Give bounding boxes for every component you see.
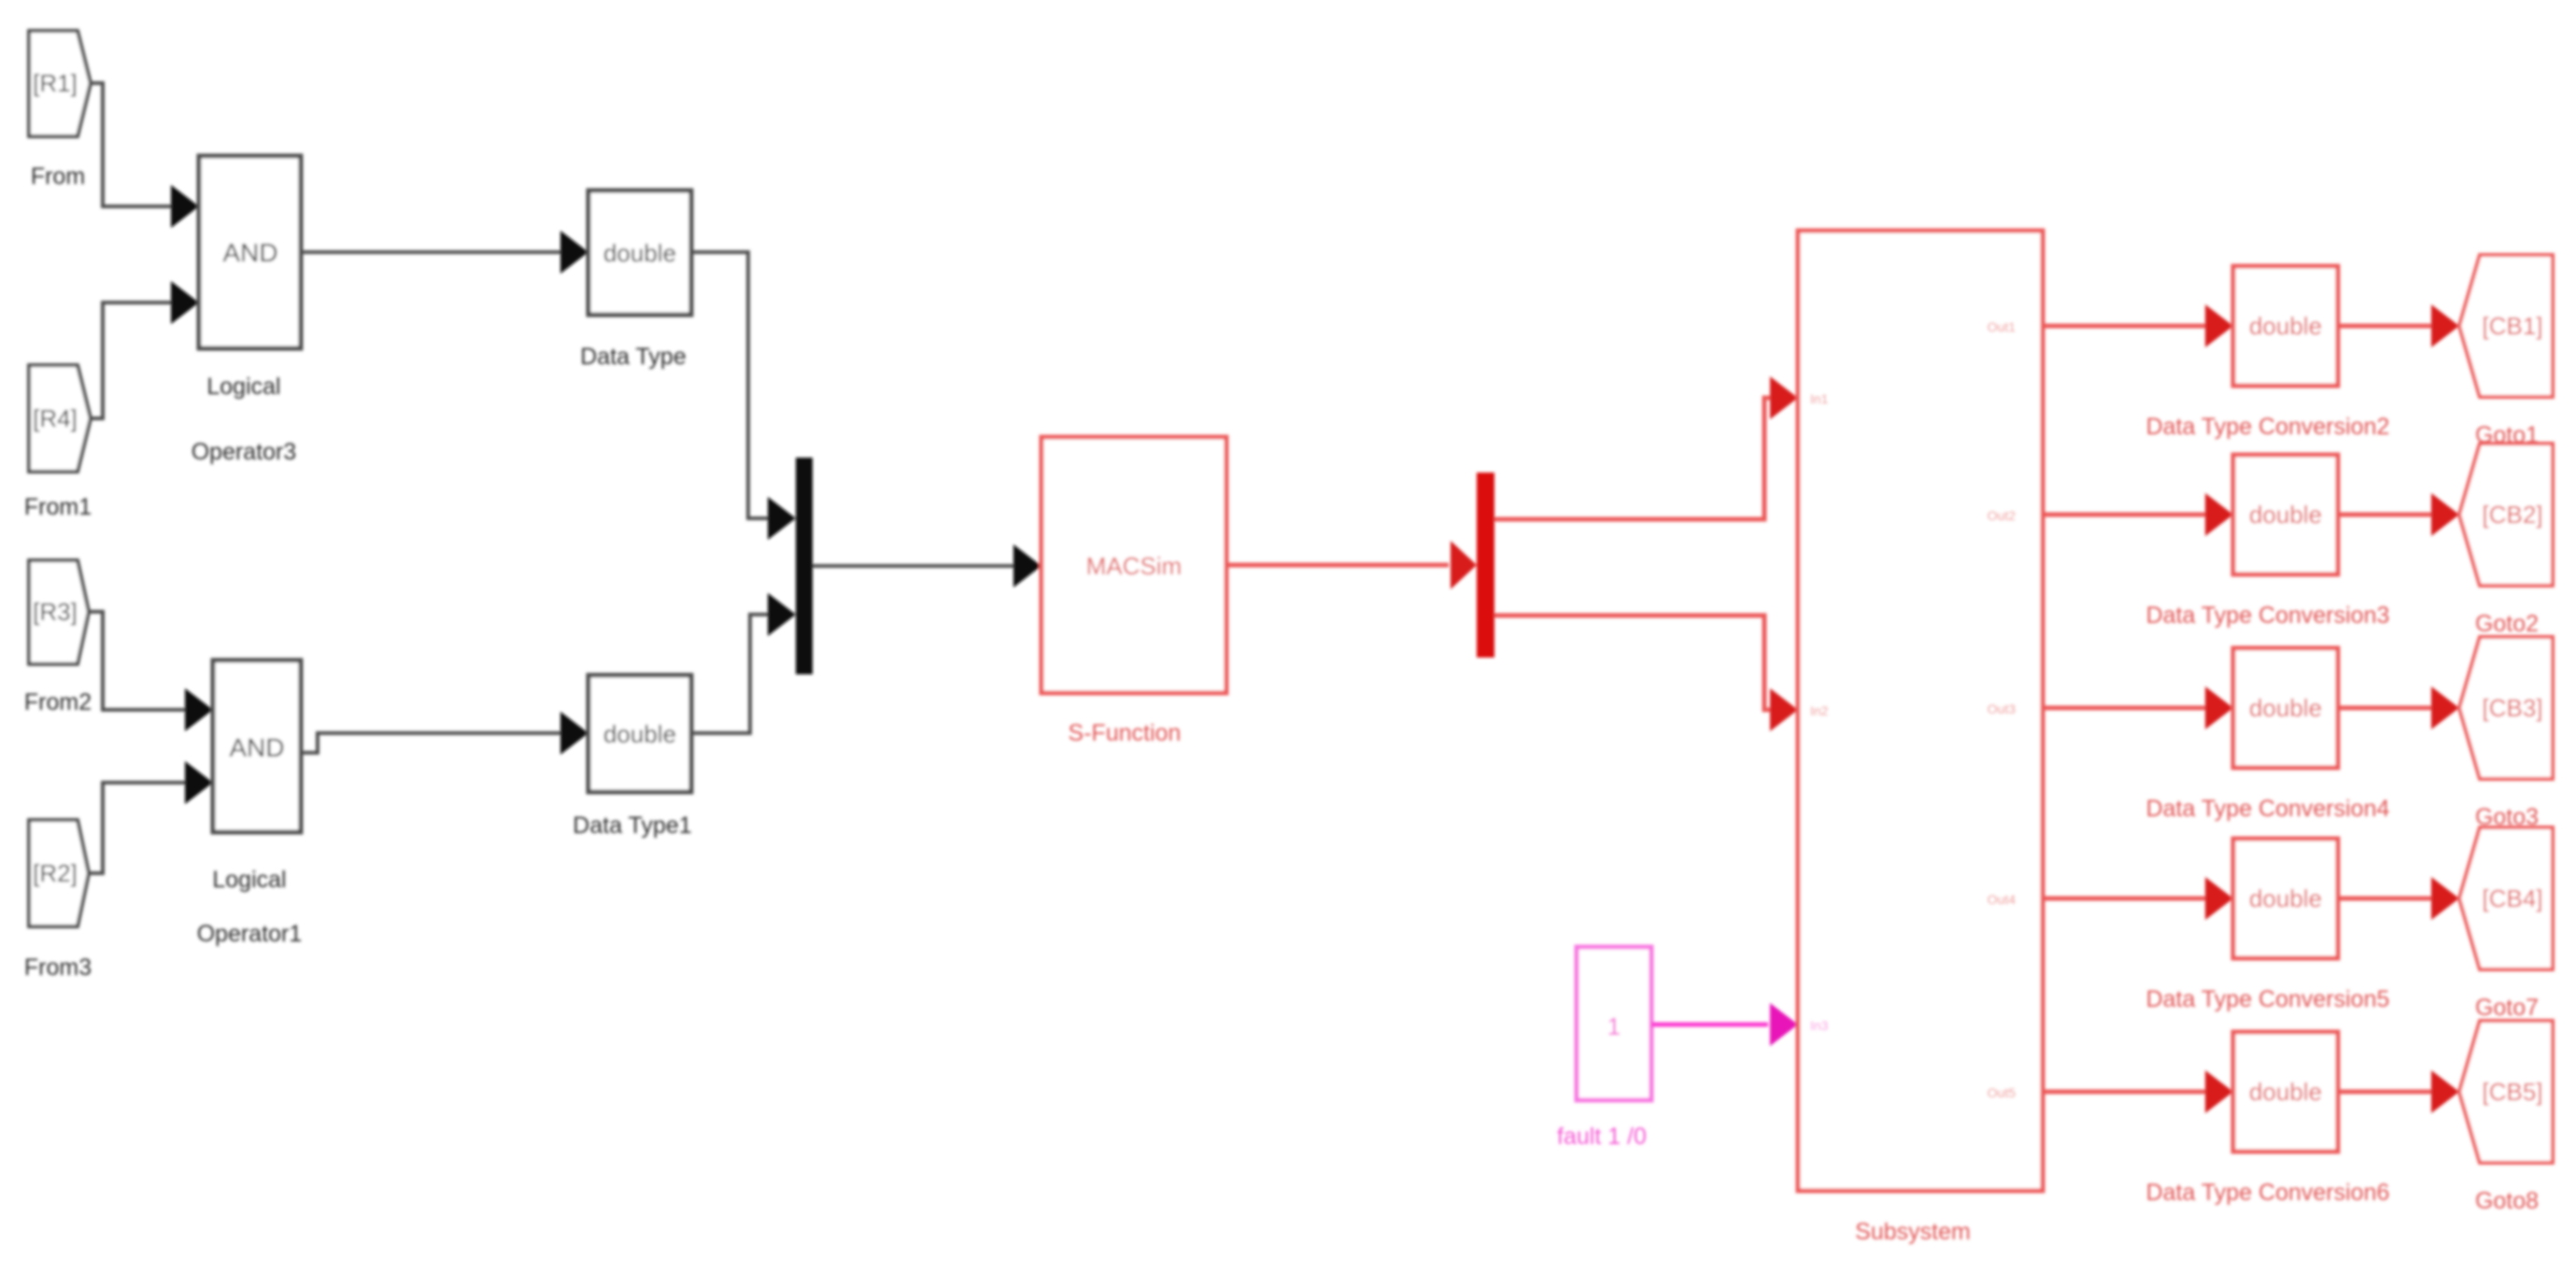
label Goto2 [2475, 611, 2539, 637]
svg-text:Data Type Conversion6: Data Type Conversion6 [2146, 1180, 2390, 1206]
wire constant to Subsystem In3 [1651, 1003, 1798, 1046]
svg-text:Data Type1: Data Type1 [573, 813, 691, 839]
label Goto7 [2475, 995, 2539, 1021]
goto tag Goto3 "[CB3]" [2459, 637, 2553, 779]
svg-text:[CB2]: [CB2] [2482, 501, 2542, 529]
wire MACSim output to Demux [1226, 541, 1477, 589]
svg-text:double: double [603, 239, 676, 267]
svg-text:double: double [2249, 1078, 2322, 1106]
wire Data Type to Mux input 1 [691, 252, 796, 540]
label Goto1 [2475, 422, 2539, 448]
svg-text:Data Type Conversion2: Data Type Conversion2 [2146, 414, 2390, 440]
label Goto3 [2475, 804, 2539, 830]
svg-text:Data Type Conversion4: Data Type Conversion4 [2146, 796, 2390, 822]
svg-text:[CB5]: [CB5] [2482, 1078, 2542, 1106]
subsystem block [1798, 231, 2043, 1245]
svg-text:Logical: Logical [206, 374, 280, 400]
svg-text:AND: AND [222, 238, 277, 267]
data type conversion block "Data Type1" (double) [573, 675, 691, 839]
svg-text:Data Type Conversion5: Data Type Conversion5 [2146, 986, 2390, 1012]
svg-text:MACSim: MACSim [1086, 552, 1182, 580]
svg-text:AND: AND [229, 733, 284, 762]
data type conversion block "Data Type Conversion4" (double) [2146, 648, 2390, 822]
svg-text:Out1: Out1 [1988, 319, 2017, 334]
goto tag Goto1 "[CB1]" [2459, 255, 2553, 397]
svg-text:fault 1 /0: fault 1 /0 [1557, 1124, 1647, 1150]
svg-text:double: double [2249, 312, 2322, 340]
wire From[R1] to Logical Operator3 input 1 [91, 83, 199, 228]
svg-text:In3: In3 [1810, 1018, 1829, 1033]
wire Subsystem Out5 to Data Type Conversion6 [2043, 1070, 2233, 1113]
wire From3[R2] to Logical Operator1 input 2 [89, 761, 213, 873]
svg-text:From3: From3 [24, 954, 92, 981]
svg-text:Operator1: Operator1 [197, 921, 303, 947]
svg-text:Goto7: Goto7 [2475, 995, 2539, 1021]
goto tag Goto8 "[CB5]" [2459, 1021, 2553, 1163]
svg-text:Out2: Out2 [1988, 508, 2017, 523]
wire From1[R4] to Logical Operator3 input 2 [91, 281, 199, 418]
wire Data Type Conversion6 to Goto tag [CB5] [2338, 1070, 2459, 1113]
data type conversion block "Data Type Conversion3" (double) [2146, 455, 2390, 629]
wire Logical Operator3 output to Data Type [301, 231, 588, 274]
wire Data Type Conversion2 to Goto tag [CB1] [2338, 304, 2459, 347]
svg-text:1: 1 [1607, 1012, 1621, 1040]
data type conversion block "Data Type Conversion2" (double) [2146, 266, 2390, 440]
data type conversion block "Data Type" (double) [580, 191, 691, 370]
goto tag Goto2 "[CB2]" [2459, 444, 2553, 586]
wire Mux output to S-Function MACSim [813, 544, 1041, 587]
svg-text:double: double [603, 720, 676, 748]
svg-text:double: double [2249, 501, 2322, 529]
wire Subsystem Out2 to Data Type Conversion3 [2043, 493, 2233, 536]
svg-text:Operator3: Operator3 [191, 439, 297, 465]
wire Data Type Conversion5 to Goto tag [CB4] [2338, 877, 2459, 920]
data type conversion block "Data Type Conversion5" (double) [2146, 839, 2390, 1012]
svg-text:Subsystem: Subsystem [1855, 1219, 1971, 1245]
wire Data Type1 to Mux input 2 [691, 593, 796, 733]
svg-text:From2: From2 [24, 689, 92, 715]
svg-text:Data Type: Data Type [580, 344, 686, 370]
svg-text:[CB3]: [CB3] [2482, 694, 2542, 722]
svg-text:In2: In2 [1810, 703, 1829, 718]
svg-text:Out4: Out4 [1988, 892, 2017, 907]
svg-text:From1: From1 [24, 494, 92, 520]
svg-text:Data Type Conversion3: Data Type Conversion3 [2146, 602, 2390, 629]
mux (black bar) [796, 458, 813, 674]
From tag R3 "[R3]" / label From2 [24, 560, 92, 715]
svg-text:Out3: Out3 [1988, 701, 2017, 716]
wire Demux output 1 to Subsystem In1 [1494, 376, 1798, 519]
svg-text:[R4]: [R4] [33, 404, 78, 432]
svg-text:From: From [31, 163, 85, 190]
svg-text:[R2]: [R2] [33, 859, 78, 887]
demux (red bar) [1477, 473, 1494, 657]
From tag R1 "[R1]" / label From [29, 31, 91, 190]
data type conversion block "Data Type Conversion6" (double) [2146, 1032, 2390, 1206]
wire Subsystem Out3 to Data Type Conversion4 [2043, 686, 2233, 729]
svg-text:Out5: Out5 [1988, 1085, 2017, 1100]
svg-text:double: double [2249, 694, 2322, 722]
svg-text:Logical: Logical [212, 867, 286, 893]
wire From2[R3] to Logical Operator1 input 1 [89, 612, 213, 731]
label Goto8 [2475, 1188, 2539, 1214]
svg-text:In1: In1 [1810, 391, 1829, 406]
wire Demux output 2 to Subsystem In2 [1494, 615, 1798, 731]
From tag R2 "[R2]" / label From3 [24, 820, 92, 981]
svg-text:Goto2: Goto2 [2475, 611, 2539, 637]
svg-text:[CB4]: [CB4] [2482, 884, 2542, 912]
svg-text:[R1]: [R1] [33, 69, 78, 97]
wire Subsystem Out4 to Data Type Conversion5 [2043, 877, 2233, 920]
logical operator AND block "Logical Operator1" [197, 660, 303, 947]
S-Function block "MACSim" [1041, 437, 1226, 746]
svg-text:Goto8: Goto8 [2475, 1188, 2539, 1214]
wire Data Type Conversion4 to Goto tag [CB3] [2338, 686, 2459, 729]
From tag R4 "[R4]" / label From1 [24, 365, 92, 520]
svg-text:double: double [2249, 884, 2322, 912]
goto tag Goto7 "[CB4]" [2459, 827, 2553, 969]
wire Data Type Conversion3 to Goto tag [CB2] [2338, 493, 2459, 536]
wire Subsystem Out1 to Data Type Conversion2 [2043, 304, 2233, 347]
svg-text:[CB1]: [CB1] [2482, 312, 2542, 340]
constant block "1" (fault 1 /0) [1557, 947, 1651, 1150]
logical operator AND block "Logical Operator3" [191, 156, 301, 465]
svg-text:[R3]: [R3] [33, 598, 78, 626]
svg-text:S-Function: S-Function [1069, 720, 1182, 746]
wire Logical Operator1 output to Data Type1 [301, 712, 588, 755]
